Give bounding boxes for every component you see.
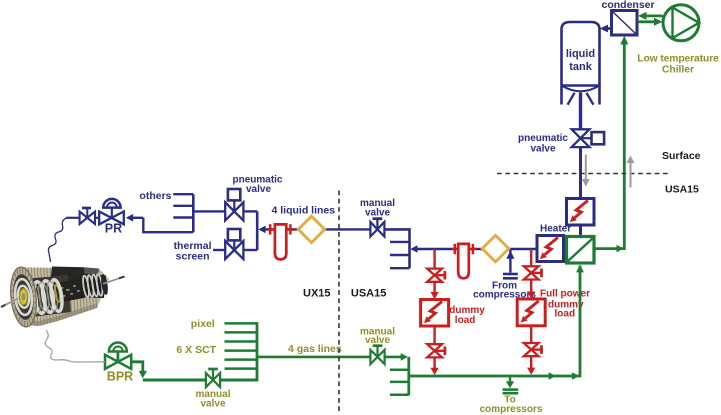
svg-text:Low temperature: Low temperature: [637, 54, 719, 65]
SECTION: detector: [1, 266, 125, 328]
label To compressors: [480, 395, 543, 415]
svg-text:6 X SCT: 6 X SCT: [176, 344, 216, 356]
wire valve to dummy load 1: [431, 282, 439, 299]
svg-text:4 gas lines: 4 gas lines: [288, 343, 342, 355]
svg-text:pneumatic: pneumatic: [518, 133, 568, 144]
flow arrow on collector: [549, 372, 557, 380]
label dummy load: [449, 305, 485, 326]
label liquid tank: [566, 48, 595, 73]
condenser U1 (heat exchanger square): [612, 11, 638, 36]
detector shell body: [18, 268, 109, 327]
wire BPR to gas line (arrow): [131, 362, 147, 379]
detector bellows rings: [24, 279, 64, 315]
red capsule filter F1 (UX15 line): [268, 224, 294, 259]
svg-text:load: load: [555, 309, 576, 320]
dashed surface boundary: [497, 173, 670, 175]
heat exchanger HX1: [567, 237, 595, 264]
detector disk dark ring: [11, 273, 36, 321]
svg-text:condenser: condenser: [602, 0, 655, 11]
wire heater H1 to exchanger: [579, 225, 582, 237]
svg-text:liquid: liquid: [566, 48, 595, 60]
wire squiggle detector to BPR: [45, 330, 105, 362]
pneumatic valve PV2 (thermal screen): [225, 229, 243, 259]
wire riser from exchanger up to condenser: [595, 36, 629, 253]
wire tank outlet pipe: [579, 93, 582, 130]
svg-text:4 liquid lines: 4 liquid lines: [272, 205, 336, 217]
svg-text:Chiller: Chiller: [662, 65, 694, 76]
SECTION: top right condenser/chiller: [595, 0, 720, 252]
wire PV2 to connector: [243, 249, 257, 251]
detector needle right: [103, 277, 125, 284]
detector needle right tip: [119, 277, 125, 279]
wire dummy load 1 to valve RV2: [433, 326, 435, 344]
detector left disk: [8, 266, 39, 328]
svg-text:compressors: compressors: [480, 404, 543, 415]
wire liquid line with arrow into connector: [258, 226, 371, 234]
SECTION: tank column: [497, 22, 701, 199]
wire gas collector line (bottom): [409, 266, 580, 377]
manual valve MV3 (navy): [370, 219, 384, 237]
wire gas line into manifold (arrow): [385, 353, 408, 361]
wire gas bottom line: [143, 379, 257, 382]
manual valve MV2 (USA15 gas): [370, 346, 384, 364]
detector hub white ring: [17, 285, 30, 308]
wire condenser to liquid tank (navy arrow): [600, 25, 612, 33]
PR pressure regulator: [99, 199, 124, 224]
valve RV3: [524, 266, 542, 279]
ux15 gas manifold (pixel / SCT): [225, 322, 258, 381]
svg-text:valve: valve: [246, 184, 271, 195]
wire SV1 to PR: [95, 217, 99, 219]
svg-text:others: others: [139, 190, 171, 202]
dummy load DL1: [421, 300, 449, 327]
to-compressors tap: [503, 376, 519, 393]
wire RV2 to gas line (arrow): [431, 357, 439, 375]
label Low temperature Chiller: [637, 54, 719, 76]
label Full power dummy load: [540, 289, 590, 320]
detector core speckles: [60, 285, 80, 297]
dashed UX15/USA15 border: [338, 191, 340, 413]
svg-text:USA15: USA15: [665, 184, 699, 196]
svg-text:load: load: [455, 315, 476, 326]
wire thermal screen to PV2: [213, 249, 225, 251]
svg-text:tank: tank: [569, 61, 593, 73]
svg-text:USA15: USA15: [351, 287, 386, 299]
orange diamond D2: [482, 235, 509, 262]
label manual valve (USA15): [360, 326, 395, 346]
flow arrow down (gray): [582, 155, 590, 187]
valve RV2: [427, 344, 445, 357]
SECTION: green bottom: [45, 265, 584, 415]
valve RV4: [524, 343, 542, 356]
svg-text:PR: PR: [105, 222, 122, 236]
pneumatic valve V1 (tank line): [572, 129, 605, 147]
wire RV4 to gas line (arrow): [527, 356, 535, 375]
wire liquid return line (navy, manifold to heater H2): [410, 245, 537, 253]
manual valve MV1 (UX15 gas): [206, 369, 220, 387]
label pneumatic valve: [518, 133, 568, 155]
red capsule filter F2 (USA15 line): [452, 244, 477, 278]
detector bellows window: [24, 275, 71, 318]
chiller pump P1: [663, 5, 699, 41]
detector hub center: [22, 293, 26, 300]
heater H1 (on tank line): [567, 199, 595, 226]
detector yellow hub: [19, 289, 27, 305]
heater H2 (on liquid return line): [537, 236, 564, 262]
svg-text:UX15: UX15: [303, 287, 331, 299]
wire valve to liquid manifold: [385, 229, 410, 268]
dummy load DL2 (full power): [517, 299, 545, 326]
svg-text:screen: screen: [176, 250, 210, 262]
SECTION: ux15 navy: [48, 175, 409, 413]
flow arrow at corner: [572, 372, 580, 380]
detector right coil block: [82, 274, 106, 299]
red branch 2: wire down: [530, 249, 532, 266]
svg-text:valve: valve: [365, 335, 390, 346]
svg-text:BPR: BPR: [107, 370, 133, 384]
detector top black wedge: [50, 267, 86, 285]
wire condenser to chiller (bottom): [638, 18, 663, 26]
liquid tank T1: [562, 22, 600, 105]
others manifold: [173, 194, 193, 232]
wire PV1 to connector: [243, 210, 257, 212]
detector needle left: [1, 299, 18, 308]
detector shell bottom shading: [20, 303, 97, 326]
from-compressors feed junction: [503, 250, 518, 278]
svg-text:Surface: Surface: [662, 150, 701, 162]
wire valve to heater: [579, 147, 582, 200]
orange diamond D1: [298, 216, 324, 242]
wire corner to others manifold: [143, 218, 193, 232]
red branch 1: wire down from liquid line: [433, 249, 435, 262]
wire arrow into PR: [126, 214, 144, 222]
valve RV1: [427, 262, 445, 282]
detector top gray wedge: [84, 267, 99, 284]
detector right end cap: [100, 274, 109, 296]
wire dummy load 2 to valve RV4: [530, 326, 532, 343]
detector bellows shading: [28, 280, 59, 313]
detector shell fins: [22, 267, 97, 326]
usa15 liquid manifold tines: [390, 242, 410, 268]
svg-text:valve: valve: [365, 207, 390, 218]
detector inner barrel yellow ring: [54, 285, 61, 302]
wire chiller to condenser (top): [638, 12, 663, 20]
label pneumatic valve: [232, 175, 282, 196]
svg-text:pixel: pixel: [191, 318, 215, 330]
svg-text:valve: valve: [200, 399, 225, 410]
detector needle left tip: [1, 305, 6, 307]
usa15 gas manifold: [390, 357, 409, 395]
label manual valve (UX15): [195, 389, 230, 410]
wire into small valve: [66, 217, 80, 219]
BPR back-pressure regulator: [105, 343, 131, 369]
pneumatic valve PV1: [225, 189, 243, 221]
label From compressors: [473, 280, 536, 300]
flow arrow up (gray): [627, 156, 635, 188]
wire valve to dummy load 2: [527, 280, 535, 299]
detector disk outer white ring: [13, 278, 33, 316]
label manual valve (navy): [360, 198, 395, 218]
wire squiggle detector to valve (navy): [48, 218, 68, 263]
detector disk rim fins: [8, 266, 39, 328]
flow arrow into exchanger: [576, 265, 584, 273]
label thermal screen: [174, 240, 212, 262]
detector right coil rings: [82, 274, 104, 298]
wire gas line from UX15 manifold: [257, 356, 371, 359]
wire manifold to pneumatic valve PV1: [193, 210, 225, 212]
svg-text:Full power: Full power: [540, 289, 590, 300]
detector inner barrel: [56, 277, 84, 303]
svg-text:valve: valve: [530, 144, 555, 155]
connector vertical (liquid side): [256, 211, 259, 250]
svg-text:Heater: Heater: [540, 224, 571, 235]
small manual valve SV1: [80, 208, 95, 224]
